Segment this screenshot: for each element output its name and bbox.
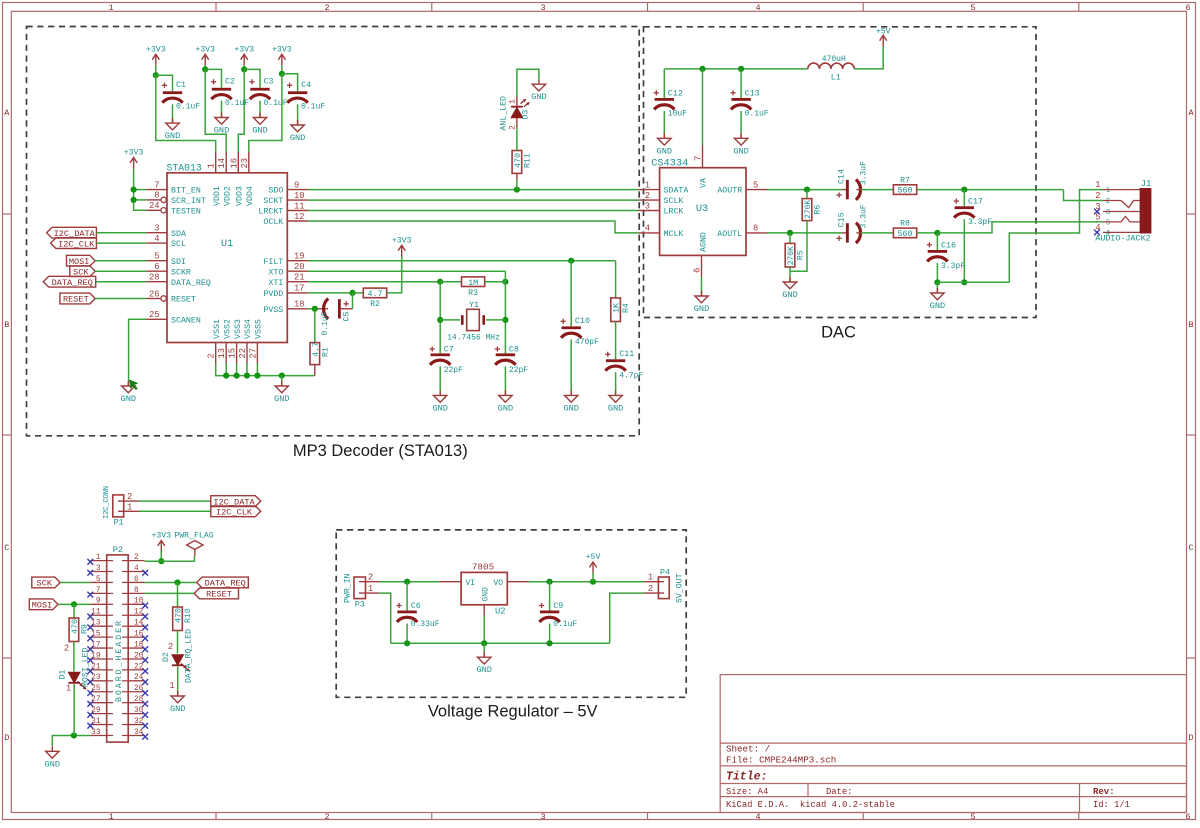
svg-text:LRCKT: LRCKT (258, 208, 283, 217)
svg-text:I2C_CLK: I2C_CLK (216, 508, 253, 518)
svg-text:VDD4: VDD4 (246, 186, 255, 206)
svg-text:GND: GND (274, 394, 289, 404)
svg-text:DATA_REQ: DATA_REQ (205, 579, 246, 589)
svg-text:0.1uF: 0.1uF (321, 311, 330, 335)
svg-text:8: 8 (154, 191, 159, 201)
svg-text:0.1uF: 0.1uF (301, 102, 325, 111)
svg-text:7: 7 (154, 180, 159, 190)
svg-text:2: 2 (1095, 191, 1100, 201)
svg-text:15: 15 (228, 348, 238, 359)
svg-text:VI: VI (466, 579, 476, 588)
svg-text:VSS3: VSS3 (234, 319, 243, 339)
svg-text:13: 13 (217, 348, 227, 359)
svg-text:C6: C6 (411, 601, 421, 611)
svg-text:22: 22 (134, 663, 144, 671)
svg-text:4: 4 (755, 3, 760, 13)
svg-text:U2: U2 (495, 607, 506, 617)
svg-text:File: CMPE244MP3.sch: File: CMPE244MP3.sch (726, 754, 836, 765)
svg-text:3: 3 (154, 224, 159, 234)
svg-text:KiCad E.D.A. kicad 4.0.2-stab: KiCad E.D.A. kicad 4.0.2-stable (726, 800, 895, 810)
svg-text:2: 2 (509, 125, 518, 130)
svg-text:+3V3: +3V3 (195, 45, 215, 54)
svg-text:MOSI_LED: MOSI_LED (81, 648, 90, 687)
svg-text:VDD2: VDD2 (223, 186, 232, 206)
svg-text:MOSI: MOSI (32, 601, 53, 611)
svg-text:8: 8 (134, 587, 139, 595)
svg-text:SDATA: SDATA (664, 187, 689, 196)
svg-text:R1: R1 (321, 347, 330, 357)
svg-text:GND: GND (782, 290, 797, 300)
svg-text:U3: U3 (696, 203, 708, 215)
svg-text:FILT: FILT (263, 258, 283, 267)
svg-text:3.3uF: 3.3uF (860, 161, 869, 185)
svg-text:R11: R11 (524, 153, 533, 168)
svg-text:3.3pF: 3.3pF (941, 262, 965, 271)
svg-text:Title:: Title: (726, 771, 767, 784)
svg-text:+3V3: +3V3 (146, 45, 166, 54)
svg-text:1: 1 (648, 573, 653, 583)
svg-text:XTI: XTI (268, 279, 283, 288)
svg-text:J1: J1 (1141, 179, 1152, 189)
svg-text:STA013: STA013 (167, 162, 202, 173)
svg-text:+3V3: +3V3 (124, 149, 144, 158)
svg-text:SCL: SCL (171, 240, 186, 249)
svg-text:L1: L1 (831, 73, 841, 83)
svg-text:3: 3 (1106, 209, 1110, 217)
svg-text:20: 20 (134, 652, 144, 660)
svg-text:A: A (1188, 108, 1194, 118)
svg-text:1: 1 (96, 554, 101, 562)
svg-text:14: 14 (134, 620, 144, 628)
svg-text:I2C_CLK: I2C_CLK (58, 239, 95, 249)
svg-text:10: 10 (134, 598, 144, 606)
svg-text:4.7: 4.7 (311, 342, 321, 357)
svg-text:GND: GND (476, 665, 491, 675)
svg-text:1K: 1K (612, 302, 622, 313)
svg-text:5: 5 (753, 180, 758, 190)
svg-text:GND: GND (121, 394, 136, 404)
svg-text:3.3pF: 3.3pF (968, 218, 992, 227)
svg-text:11: 11 (294, 201, 305, 211)
svg-text:R3: R3 (468, 289, 478, 298)
svg-text:23: 23 (91, 674, 101, 682)
svg-text:AOUTR: AOUTR (717, 187, 742, 196)
svg-text:AUDIO-JACK2: AUDIO-JACK2 (1095, 233, 1150, 243)
svg-text:2: 2 (168, 642, 173, 652)
svg-text:GND: GND (45, 759, 60, 769)
svg-text:GND: GND (531, 92, 546, 102)
svg-text:GND: GND (608, 403, 623, 413)
svg-text:C7: C7 (444, 344, 454, 354)
svg-text:Rev:: Rev: (1093, 787, 1115, 797)
svg-text:1: 1 (108, 812, 113, 822)
svg-text:D: D (1188, 733, 1193, 743)
svg-text:4: 4 (755, 812, 760, 822)
svg-text:2: 2 (64, 644, 69, 654)
svg-text:33: 33 (91, 729, 101, 737)
svg-text:9: 9 (294, 180, 299, 190)
svg-text:26: 26 (134, 685, 144, 693)
svg-text:GND: GND (694, 304, 709, 314)
svg-text:22pF: 22pF (444, 366, 463, 375)
svg-text:C4: C4 (301, 80, 311, 90)
svg-text:C14: C14 (837, 169, 847, 184)
svg-text:PVSS: PVSS (263, 306, 283, 315)
svg-text:C: C (1188, 543, 1193, 553)
svg-text:R6: R6 (814, 205, 823, 215)
svg-text:A: A (4, 108, 10, 118)
svg-text:1M: 1M (468, 278, 478, 288)
svg-text:BOARD_HEADER: BOARD_HEADER (115, 619, 124, 702)
svg-text:0.1uF: 0.1uF (225, 99, 249, 108)
svg-text:Date:: Date: (826, 787, 852, 797)
svg-text:14: 14 (217, 158, 227, 169)
svg-text:TESTEN: TESTEN (171, 207, 201, 216)
svg-text:12: 12 (134, 609, 144, 617)
svg-text:GND: GND (170, 704, 185, 714)
svg-text:VSS5: VSS5 (255, 319, 264, 339)
svg-text:1: 1 (207, 163, 217, 168)
svg-text:28: 28 (134, 696, 144, 704)
svg-text:34: 34 (134, 729, 144, 737)
svg-text:MCLK: MCLK (664, 230, 684, 239)
svg-text:2: 2 (127, 492, 132, 502)
svg-text:D2: D2 (162, 652, 171, 662)
svg-text:GND: GND (563, 403, 578, 413)
svg-text:R5: R5 (797, 250, 806, 260)
svg-text:7: 7 (96, 587, 101, 595)
svg-text:1: 1 (1106, 187, 1110, 195)
svg-text:VSS1: VSS1 (213, 319, 222, 339)
svg-text:3: 3 (645, 201, 650, 211)
svg-text:MP3 Decoder (STA013): MP3 Decoder (STA013) (293, 442, 468, 460)
svg-text:C2: C2 (225, 76, 235, 86)
svg-text:1: 1 (169, 681, 174, 691)
svg-text:27: 27 (248, 348, 258, 359)
svg-text:+3V3: +3V3 (151, 532, 171, 541)
svg-text:21: 21 (91, 663, 101, 671)
svg-text:8: 8 (753, 224, 758, 234)
svg-text:C16: C16 (941, 240, 956, 250)
svg-text:GND: GND (498, 403, 513, 413)
svg-text:2: 2 (324, 3, 329, 13)
svg-text:15: 15 (91, 631, 101, 639)
svg-text:Sheet: /: Sheet: / (726, 744, 770, 755)
svg-text:U1: U1 (221, 238, 233, 250)
svg-text:1: 1 (1095, 180, 1100, 190)
svg-text:4: 4 (645, 224, 650, 234)
svg-text:AGND: AGND (700, 232, 709, 252)
svg-text:23: 23 (240, 158, 250, 169)
svg-text:PVDD: PVDD (263, 290, 283, 299)
svg-text:VDD3: VDD3 (236, 186, 245, 206)
svg-text:VA: VA (700, 178, 709, 188)
svg-text:560: 560 (898, 229, 913, 239)
svg-text:7: 7 (693, 156, 703, 161)
svg-text:P1: P1 (114, 518, 124, 528)
svg-text:RESET: RESET (171, 296, 196, 305)
svg-text:C1: C1 (176, 80, 186, 90)
svg-text:26: 26 (149, 289, 160, 299)
svg-text:24: 24 (134, 674, 144, 682)
svg-text:22pF: 22pF (509, 366, 528, 375)
svg-text:VSS4: VSS4 (244, 319, 253, 339)
svg-text:1: 1 (645, 180, 650, 190)
svg-text:10uF: 10uF (668, 109, 687, 118)
svg-text:CS4334: CS4334 (651, 157, 688, 169)
svg-text:RESET: RESET (206, 590, 232, 600)
svg-text:C11: C11 (619, 349, 634, 359)
svg-text:+3V3: +3V3 (272, 45, 292, 54)
svg-text:2: 2 (645, 191, 650, 201)
svg-text:PWR_FLAG: PWR_FLAG (174, 532, 213, 541)
svg-text:+3V3: +3V3 (234, 45, 254, 54)
svg-text:R10: R10 (184, 608, 193, 623)
svg-text:C: C (4, 543, 9, 553)
svg-text:470uH: 470uH (822, 55, 846, 64)
svg-text:Voltage Regulator – 5V: Voltage Regulator – 5V (428, 703, 598, 721)
svg-text:GND: GND (930, 301, 945, 311)
svg-text:SCK: SCK (37, 579, 53, 589)
svg-text:0.1uF: 0.1uF (176, 102, 200, 111)
svg-text:DATA_RQ_LED: DATA_RQ_LED (185, 629, 194, 683)
svg-text:2: 2 (648, 584, 653, 594)
svg-text:5: 5 (970, 812, 975, 822)
svg-text:B: B (1188, 320, 1193, 330)
svg-text:AOUTL: AOUTL (717, 230, 742, 239)
svg-text:R4: R4 (622, 303, 631, 313)
svg-text:Size: A4: Size: A4 (726, 787, 768, 797)
svg-text:3: 3 (540, 812, 545, 822)
svg-text:470: 470 (513, 153, 523, 168)
svg-text:2: 2 (134, 554, 139, 562)
svg-text:18: 18 (134, 641, 144, 649)
svg-text:C13: C13 (745, 88, 760, 98)
svg-text:5: 5 (1106, 220, 1110, 228)
svg-text:C8: C8 (509, 344, 519, 354)
svg-text:D: D (4, 733, 9, 743)
svg-text:Id: 1/1: Id: 1/1 (1093, 800, 1130, 810)
svg-text:BIT_EN: BIT_EN (171, 187, 201, 196)
svg-text:C3: C3 (264, 76, 274, 86)
svg-text:3: 3 (96, 565, 101, 573)
svg-text:2: 2 (1106, 198, 1110, 206)
svg-text:3.3uF: 3.3uF (860, 204, 869, 228)
svg-text:6: 6 (134, 576, 139, 584)
svg-text:P2: P2 (113, 545, 123, 555)
svg-text:0.33uF: 0.33uF (411, 620, 440, 629)
svg-text:0.1uF: 0.1uF (264, 99, 288, 108)
svg-text:470: 470 (70, 619, 80, 634)
svg-text:30: 30 (134, 707, 144, 715)
svg-text:SCANEN: SCANEN (171, 316, 201, 325)
svg-text:R7: R7 (900, 176, 910, 185)
svg-text:1: 1 (127, 502, 132, 512)
svg-text:SDO: SDO (268, 187, 283, 196)
svg-text:6: 6 (1185, 3, 1190, 13)
svg-text:SDA: SDA (171, 230, 186, 239)
svg-text:18: 18 (294, 300, 305, 310)
svg-text:C5: C5 (341, 311, 351, 321)
svg-text:DAC: DAC (821, 324, 856, 342)
svg-text:PWR_IN: PWR_IN (344, 573, 353, 603)
svg-text:4: 4 (134, 565, 139, 573)
svg-text:4.7: 4.7 (367, 289, 382, 299)
svg-text:5: 5 (970, 3, 975, 13)
svg-text:4: 4 (154, 234, 159, 244)
svg-text:25: 25 (91, 685, 101, 693)
svg-text:29: 29 (91, 707, 101, 715)
svg-text:14.7456 MHz: 14.7456 MHz (447, 333, 500, 342)
svg-text:2: 2 (207, 353, 217, 358)
svg-text:17: 17 (294, 284, 305, 294)
svg-text:4.7pF: 4.7pF (619, 371, 643, 380)
svg-text:1: 1 (66, 684, 71, 694)
svg-text:SCR_INT: SCR_INT (171, 197, 206, 206)
svg-text:C15: C15 (837, 212, 847, 227)
svg-text:7805: 7805 (472, 562, 494, 573)
svg-text:DATA_REQ: DATA_REQ (52, 278, 93, 288)
svg-text:SDI: SDI (171, 258, 186, 267)
svg-text:P4: P4 (660, 568, 670, 578)
svg-text:19: 19 (91, 652, 101, 660)
svg-text:B: B (4, 320, 9, 330)
svg-text:16: 16 (229, 158, 239, 169)
svg-text:31: 31 (91, 718, 101, 726)
svg-text:GND: GND (481, 587, 490, 602)
svg-text:VDD1: VDD1 (213, 186, 222, 206)
svg-text:470pF: 470pF (575, 338, 599, 347)
svg-text:12: 12 (294, 212, 305, 222)
svg-text:21: 21 (294, 273, 305, 283)
svg-text:22: 22 (238, 348, 248, 359)
svg-text:5: 5 (154, 252, 159, 262)
svg-text:19: 19 (294, 252, 305, 262)
svg-text:D3: D3 (522, 110, 531, 120)
svg-text:+3V3: +3V3 (392, 236, 412, 245)
svg-text:LRCK: LRCK (664, 208, 684, 217)
svg-text:R9: R9 (81, 624, 90, 634)
svg-text:D1: D1 (59, 670, 68, 680)
svg-text:270K: 270K (804, 200, 813, 219)
svg-text:1: 1 (509, 99, 518, 104)
svg-text:17: 17 (91, 641, 101, 649)
svg-text:10: 10 (294, 191, 305, 201)
svg-text:DATA_REQ: DATA_REQ (171, 279, 211, 288)
svg-text:28: 28 (149, 273, 160, 283)
svg-text:27: 27 (91, 696, 101, 704)
svg-text:32: 32 (134, 718, 144, 726)
svg-text:OCLK: OCLK (263, 218, 283, 227)
svg-text:560: 560 (898, 186, 913, 196)
svg-text:16: 16 (134, 631, 144, 639)
svg-text:11: 11 (91, 609, 101, 617)
svg-text:R8: R8 (900, 220, 910, 229)
svg-text:C12: C12 (668, 88, 683, 98)
svg-text:1: 1 (108, 3, 113, 13)
svg-text:270K: 270K (787, 246, 796, 265)
svg-text:I2C_CONN: I2C_CONN (103, 486, 111, 519)
svg-text:C9: C9 (553, 601, 563, 611)
svg-text:XTO: XTO (268, 268, 283, 277)
svg-text:6: 6 (692, 268, 702, 273)
svg-text:2: 2 (324, 812, 329, 822)
svg-text:P3: P3 (355, 600, 365, 610)
svg-text:3: 3 (540, 3, 545, 13)
svg-text:VO: VO (493, 579, 503, 588)
svg-text:2: 2 (368, 573, 373, 583)
svg-text:SCKT: SCKT (263, 197, 283, 206)
svg-text:6: 6 (154, 262, 159, 272)
svg-text:VSS2: VSS2 (223, 319, 232, 339)
svg-text:5V_OUT: 5V_OUT (676, 573, 685, 603)
svg-text:6: 6 (1185, 812, 1190, 822)
svg-text:C17: C17 (968, 197, 983, 207)
svg-text:GND: GND (432, 403, 447, 413)
svg-text:13: 13 (91, 620, 101, 628)
svg-text:20: 20 (294, 262, 305, 272)
svg-text:GND: GND (252, 126, 267, 136)
svg-text:SCLK: SCLK (664, 197, 684, 206)
svg-text:470: 470 (174, 608, 184, 623)
svg-text:0.1uF: 0.1uF (745, 109, 769, 118)
svg-text:GND: GND (733, 146, 748, 156)
svg-text:5: 5 (96, 576, 101, 584)
svg-text:0.1uF: 0.1uF (553, 620, 577, 629)
svg-text:R2: R2 (370, 300, 380, 309)
svg-text:25: 25 (149, 310, 160, 320)
svg-text:+5V: +5V (586, 553, 601, 562)
svg-text:GND: GND (657, 146, 672, 156)
svg-text:24: 24 (149, 201, 160, 211)
svg-text:9: 9 (96, 598, 101, 606)
svg-text:GND: GND (165, 131, 180, 141)
svg-text:1: 1 (368, 584, 373, 594)
svg-text:GND: GND (290, 133, 305, 143)
svg-text:C10: C10 (575, 316, 590, 326)
svg-text:RESET: RESET (63, 295, 89, 305)
svg-text:SCKR: SCKR (171, 268, 191, 277)
svg-text:ANL_LED: ANL_LED (500, 96, 509, 130)
